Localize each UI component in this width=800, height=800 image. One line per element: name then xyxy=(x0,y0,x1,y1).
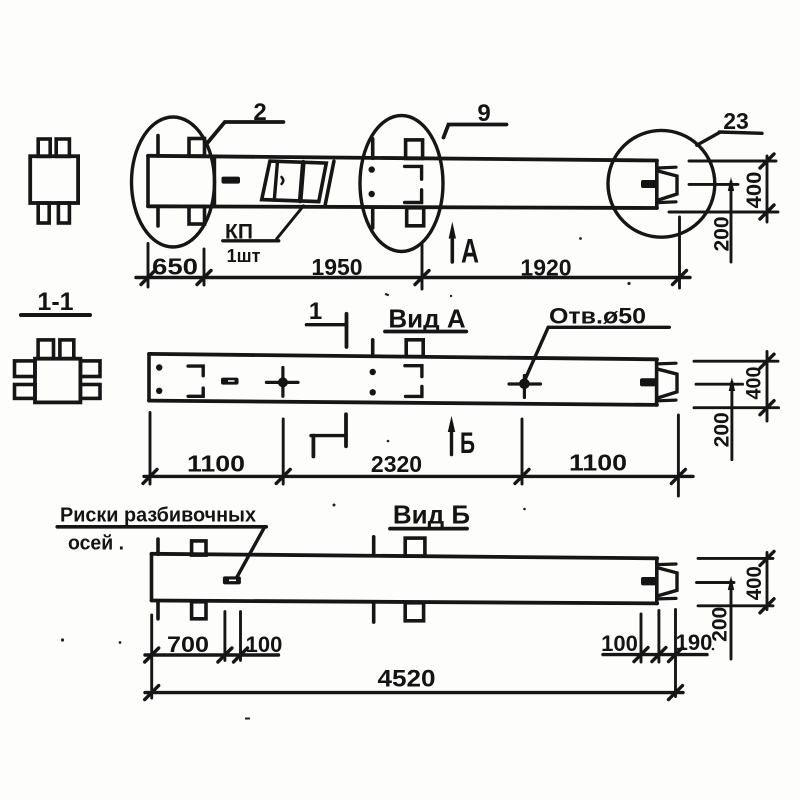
V3 dim line 4520 xyxy=(145,691,683,694)
V3 right bottom extension xyxy=(698,604,773,607)
V3 middle extension xyxy=(697,581,735,584)
leader Otv 50 xyxy=(525,327,548,379)
V2 right end line xyxy=(655,359,659,405)
svg-text:9: 9 xyxy=(477,100,490,127)
V3 extension x641 xyxy=(640,614,643,662)
V2 extension x150 xyxy=(149,413,152,485)
V1 extension x148 xyxy=(147,244,150,288)
detail oval 9 xyxy=(360,116,443,252)
V3 extension x675 long xyxy=(674,610,677,697)
V2 middle dot 1 xyxy=(370,369,376,375)
V1 KP plate divider 2 xyxy=(300,162,303,201)
V2 riska dash xyxy=(221,378,239,385)
beam V3 left end xyxy=(150,554,154,601)
section mark 1 lower vertical xyxy=(344,414,348,446)
section title 1-1 underline xyxy=(21,313,90,317)
svg-text:1950: 1950 xyxy=(311,254,362,280)
V1 dim line xyxy=(136,276,690,279)
beam V1 left end xyxy=(146,156,150,207)
svg-text:650: 650 xyxy=(152,254,198,280)
V1 hidden bracket upper xyxy=(405,166,422,179)
V1 left tick below xyxy=(156,206,160,226)
V3 extension x659 xyxy=(657,611,660,663)
V1 dim 400 line xyxy=(766,156,769,222)
section 1-1 top stub 2 xyxy=(60,340,74,359)
V3 end wedge xyxy=(658,568,677,596)
svg-text:1920: 1920 xyxy=(520,255,571,281)
svg-text:4520: 4520 xyxy=(378,666,436,693)
V2 extension x522 xyxy=(521,419,524,484)
svg-text:400: 400 xyxy=(743,566,766,600)
V3 right dim ticks xyxy=(634,648,648,662)
V3 left tick above xyxy=(156,539,160,554)
section mark 1 upper bar xyxy=(306,323,345,326)
V1 middle dot 1 xyxy=(369,166,375,172)
leader 23 xyxy=(697,133,720,146)
leader 2 xyxy=(207,122,284,144)
V3 end groove bottom xyxy=(658,597,677,601)
section 1-1 body xyxy=(35,359,80,403)
V2 dim line xyxy=(144,475,693,478)
V2 extension right dim xyxy=(677,415,680,496)
label 23 underline xyxy=(719,132,762,133)
V1 small mark in plate xyxy=(282,177,284,184)
beam V2 left end xyxy=(147,354,151,401)
view arrow A xyxy=(450,230,454,262)
V3 end anchor dash xyxy=(641,577,657,585)
V1 left stub above xyxy=(189,139,205,157)
V1 KP plate parallelogram xyxy=(262,161,327,202)
beam V1 top edge xyxy=(148,156,657,161)
section S1 top stub 1 xyxy=(38,139,50,156)
note riski underline xyxy=(57,525,266,529)
svg-text:400: 400 xyxy=(743,367,766,400)
V1 right bottom extension xyxy=(669,211,778,214)
V3 middle stub below xyxy=(405,603,423,621)
section 1-1 right stub 2 xyxy=(80,385,100,399)
svg-text:190: 190 xyxy=(676,630,713,655)
svg-text:Вид А: Вид А xyxy=(388,304,465,334)
section 1-1 right stub 1 xyxy=(80,361,100,377)
leader 9 xyxy=(444,125,507,138)
V2 right top extension xyxy=(694,360,778,363)
V3 dim 200 line xyxy=(730,581,733,659)
V1 dim 400 tick bottom xyxy=(760,205,774,219)
V2 dim 200 line xyxy=(730,382,733,460)
section S1 body (top-left column cross-section) xyxy=(30,156,78,203)
detail oval 2 xyxy=(132,117,215,247)
V1 middle tick above xyxy=(371,139,375,159)
V3 left stub below xyxy=(192,602,206,619)
svg-text:Б: Б xyxy=(460,427,475,460)
V2 middle bracket upper xyxy=(405,366,422,377)
V3 end groove top xyxy=(658,562,677,566)
beam V3 bottom edge xyxy=(152,601,658,604)
V3 left stub above xyxy=(192,541,206,555)
V1 right end line xyxy=(655,161,659,208)
V2 dim ticks xyxy=(143,469,157,483)
svg-text:1-1: 1-1 xyxy=(37,288,73,316)
V1 extra slant line xyxy=(325,161,334,206)
V3 right top extension xyxy=(698,557,773,560)
section 1-1 left stub 2 xyxy=(15,385,36,399)
V3 middle tick above xyxy=(372,537,376,555)
V1 dim 400 tick top xyxy=(760,154,774,168)
V3 extension x240 xyxy=(239,612,242,661)
V2 left dot 1 xyxy=(156,364,162,370)
svg-text:1100: 1100 xyxy=(569,450,627,476)
svg-text:2: 2 xyxy=(253,99,266,126)
svg-text:1100: 1100 xyxy=(187,451,245,477)
V2 right bottom extension xyxy=(694,406,779,409)
V1 hidden bracket lower xyxy=(405,190,422,203)
V3 extension x225 xyxy=(223,612,226,661)
V2 middle bracket lower xyxy=(406,386,422,396)
V1 middle stub below xyxy=(407,208,424,226)
V1 end wedge xyxy=(658,171,677,200)
KP leader xyxy=(277,206,304,239)
V2 extension x283 xyxy=(282,419,285,484)
section 1-1 top stub 1 xyxy=(38,340,53,359)
svg-text:1шт: 1шт xyxy=(227,246,261,266)
V1 extension x422 xyxy=(421,244,424,290)
V3 left tick below xyxy=(156,601,160,619)
V2 end groove bottom xyxy=(658,399,677,403)
svg-text:Риски разбивочных: Риски разбивочных xyxy=(60,505,256,527)
V1 riska dash xyxy=(222,177,241,184)
V2 middle extension xyxy=(696,383,743,386)
svg-text:200: 200 xyxy=(711,412,734,447)
V1 end anchor dash xyxy=(641,180,657,188)
V1 extension right 1920 xyxy=(678,217,681,288)
V2 left bracket lower xyxy=(188,388,203,396)
detail circle 23 xyxy=(608,130,715,237)
title Vid A underline xyxy=(385,330,466,334)
note leader xyxy=(237,527,265,577)
V3 left dim line xyxy=(145,653,279,656)
V1 middle dot 2 xyxy=(369,191,375,197)
section mark 1 lower hook xyxy=(311,436,315,457)
V3 middle tick below xyxy=(372,602,376,622)
svg-text:1: 1 xyxy=(309,298,322,325)
view arrow B xyxy=(450,424,453,455)
V1 middle stub above xyxy=(406,140,423,159)
svg-text:100: 100 xyxy=(246,632,283,657)
section S1 bottom stub 2 xyxy=(58,203,69,223)
V3 extension left end long xyxy=(150,615,153,698)
beam V1 head inner edge xyxy=(213,157,216,207)
svg-text:А: А xyxy=(461,233,479,271)
V2 left bracket upper xyxy=(188,366,203,376)
svg-text:Отв.ø50: Отв.ø50 xyxy=(549,304,646,329)
section S1 top stub 2 xyxy=(56,139,69,156)
svg-text:200: 200 xyxy=(711,216,734,251)
V1 extension x204 xyxy=(203,249,206,285)
section mark 1 upper vertical xyxy=(345,314,349,347)
V2 left dot 2 xyxy=(156,388,162,394)
V3 4520 ticks xyxy=(145,686,159,700)
section mark 1 lower bar xyxy=(311,434,346,437)
beam V2 top edge xyxy=(149,354,657,359)
V1 dim 200 line xyxy=(730,182,733,262)
V2 middle stub above xyxy=(406,340,423,357)
V3 right dim line xyxy=(603,653,707,656)
section S1 bottom stub 1 xyxy=(38,203,49,223)
V2 dim 400 line xyxy=(766,352,769,422)
V3 middle stub above xyxy=(405,538,425,556)
svg-text:23: 23 xyxy=(723,108,749,134)
V1 middle extension xyxy=(689,183,738,186)
beam V2 bottom edge xyxy=(149,401,657,405)
V1 dim ticks xyxy=(141,271,155,285)
V3 riska dash xyxy=(223,576,241,584)
V1 end groove top xyxy=(658,166,677,170)
V3 left dim ticks xyxy=(145,648,159,662)
V2 middle tick above xyxy=(371,340,375,357)
label KP underline xyxy=(223,239,279,242)
V1 KP plate divider 1 xyxy=(274,161,277,200)
V3 right end line xyxy=(655,558,659,603)
svg-text:700: 700 xyxy=(167,632,209,657)
V1 middle tick below xyxy=(371,208,375,229)
svg-text:2320: 2320 xyxy=(371,451,422,477)
V1 left tick above xyxy=(156,136,160,156)
svg-text:осей .: осей . xyxy=(68,533,124,555)
svg-text:Вид Б: Вид Б xyxy=(393,500,470,530)
svg-text:100: 100 xyxy=(601,631,638,656)
title Vid B underline xyxy=(390,527,467,531)
label Otv 50 underline xyxy=(548,326,669,329)
beam V1 bottom edge xyxy=(148,206,657,208)
V2 end wedge xyxy=(658,369,677,398)
section 1-1 left stub 1 xyxy=(15,361,36,377)
V1 right top extension xyxy=(689,160,776,163)
V1 end groove bottom xyxy=(658,200,677,204)
scan specks xyxy=(61,237,714,719)
V1 left stub below xyxy=(189,206,205,224)
V2 middle dot 2 xyxy=(370,389,376,395)
V2 crosshair left xyxy=(266,381,298,384)
V2 end anchor dash xyxy=(640,378,656,386)
V3 dim 400 line xyxy=(766,553,769,610)
V2 hole crosshair xyxy=(509,382,541,385)
svg-text:400: 400 xyxy=(743,172,766,209)
V2 end groove top xyxy=(658,362,677,366)
beam V3 top edge xyxy=(152,554,658,559)
